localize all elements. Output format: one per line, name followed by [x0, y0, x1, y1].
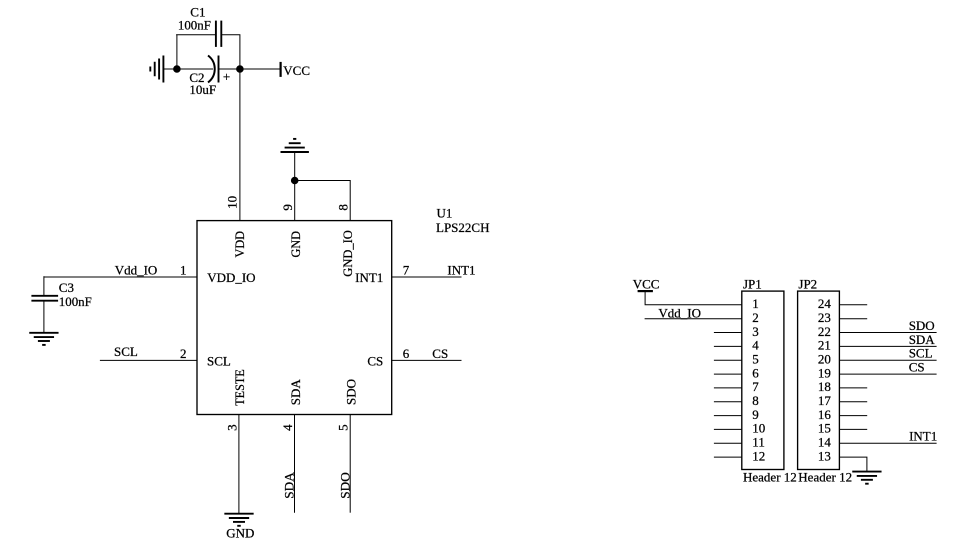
- wire (C2 to VCC): [219, 68, 281, 70]
- svg-text:12: 12: [752, 448, 765, 463]
- svg-text:SCL: SCL: [909, 346, 933, 361]
- svg-text:LPS22CH: LPS22CH: [436, 220, 489, 235]
- svg-text:2: 2: [180, 346, 187, 361]
- power VCC (bar): [281, 62, 310, 78]
- JP2 pin 21 wire: [839, 345, 936, 347]
- pin 4 wire: [294, 415, 296, 513]
- svg-text:SCL: SCL: [114, 344, 138, 359]
- svg-text:SDA: SDA: [288, 379, 303, 406]
- JP1 pin 4 wire: [714, 345, 742, 347]
- IC U1 LPS22CH body: [197, 221, 392, 415]
- JP1 pin 9 wire: [714, 415, 742, 417]
- svg-text:SDA: SDA: [281, 472, 296, 499]
- svg-text:Vdd_IO: Vdd_IO: [115, 263, 158, 278]
- junction (pin 9 node): [291, 177, 298, 184]
- svg-text:5: 5: [752, 352, 759, 367]
- svg-text:9: 9: [280, 204, 295, 211]
- pin 3 wire: [238, 415, 240, 514]
- svg-text:15: 15: [818, 421, 831, 436]
- svg-text:INT1: INT1: [447, 263, 475, 278]
- svg-text:+: +: [223, 69, 230, 84]
- svg-text:Header 12: Header 12: [743, 470, 797, 485]
- pin 5 wire: [349, 415, 351, 513]
- JP1 pin 5 wire: [714, 359, 742, 361]
- svg-text:23: 23: [818, 310, 831, 325]
- power VCC (header side): [633, 276, 660, 291]
- svg-text:13: 13: [818, 448, 831, 463]
- svg-text:INT1: INT1: [355, 270, 383, 285]
- wire (ground to C2): [163, 68, 213, 70]
- wire (to pin 8): [295, 181, 351, 221]
- svg-text:8: 8: [752, 393, 759, 408]
- svg-text:SDO: SDO: [338, 472, 353, 499]
- svg-text:10: 10: [752, 421, 765, 436]
- wire (C1 right plate to junction 2): [221, 35, 240, 69]
- svg-text:Vdd_IO: Vdd_IO: [658, 305, 701, 320]
- svg-text:7: 7: [403, 263, 410, 278]
- svg-text:3: 3: [752, 324, 759, 339]
- connector JP2 body: [798, 291, 840, 469]
- svg-text:9: 9: [752, 407, 759, 422]
- svg-text:VCC: VCC: [283, 63, 310, 78]
- JP1 pin 3 wire: [714, 332, 742, 334]
- svg-text:14: 14: [818, 435, 832, 450]
- svg-text:3: 3: [224, 424, 239, 431]
- svg-text:16: 16: [818, 407, 832, 422]
- svg-text:C3: C3: [59, 280, 74, 295]
- svg-text:7: 7: [752, 379, 759, 394]
- svg-text:VCC: VCC: [633, 276, 660, 291]
- svg-text:GND: GND: [226, 526, 254, 541]
- svg-text:2: 2: [752, 310, 759, 325]
- ground (JP2 pin 13): [852, 472, 881, 484]
- JP2 pin 23 wire: [839, 318, 867, 320]
- ground (above pin 9, flipped): [281, 139, 309, 181]
- wire (pin 1 down to C3): [43, 276, 45, 296]
- svg-text:JP2: JP2: [798, 276, 817, 291]
- svg-text:SDO: SDO: [909, 318, 935, 333]
- svg-text:10uF: 10uF: [189, 82, 216, 97]
- wire (VCC to JP1 pin 1): [645, 291, 742, 305]
- svg-text:CS: CS: [432, 346, 448, 361]
- svg-text:22: 22: [818, 324, 831, 339]
- svg-text:6: 6: [752, 365, 759, 380]
- svg-text:21: 21: [818, 338, 831, 353]
- JP2 pin 13 wire: [839, 457, 867, 472]
- svg-text:INT1: INT1: [909, 429, 937, 444]
- wire (VCC node down to pin 10): [239, 69, 241, 221]
- capacitor C3 100nF: [31, 280, 91, 309]
- JP1 pin 6 wire: [714, 373, 742, 375]
- svg-text:4: 4: [280, 424, 295, 431]
- svg-text:20: 20: [818, 352, 831, 367]
- wire (pin 9): [294, 181, 296, 221]
- connector JP1 body: [742, 291, 784, 469]
- svg-text:6: 6: [403, 346, 410, 361]
- JP1 pin 10 wire: [714, 428, 742, 430]
- JP2 pin 16 wire: [839, 415, 867, 417]
- svg-text:18: 18: [818, 379, 831, 394]
- JP1 pin 12 wire: [714, 456, 742, 458]
- svg-text:1: 1: [180, 263, 187, 278]
- svg-text:1: 1: [752, 296, 759, 311]
- svg-text:19: 19: [818, 365, 831, 380]
- pin 7 wire: [392, 276, 462, 278]
- wire (C3 to ground): [43, 301, 45, 333]
- JP1 pin 8 wire: [714, 401, 742, 403]
- svg-text:10: 10: [225, 196, 240, 209]
- svg-text:VDD: VDD: [232, 231, 247, 258]
- svg-text:SDO: SDO: [343, 379, 358, 405]
- ground (decoupling, left of C2): [150, 56, 163, 83]
- svg-text:SDA: SDA: [909, 332, 936, 347]
- svg-text:TESTE: TESTE: [232, 369, 247, 406]
- wire (junction up to C1): [176, 35, 178, 70]
- svg-text:17: 17: [818, 393, 832, 408]
- pin 2 wire: [100, 359, 197, 361]
- capacitor C1 100nF: [178, 5, 221, 47]
- pin 1 wire: [44, 276, 197, 278]
- JP1 pin 7 wire: [714, 387, 742, 389]
- svg-text:SCL: SCL: [207, 353, 231, 368]
- junction (VCC node): [237, 66, 244, 73]
- svg-text:24: 24: [818, 296, 832, 311]
- svg-text:U1: U1: [437, 206, 453, 221]
- svg-text:100nF: 100nF: [178, 17, 211, 32]
- wire (to C1 left plate): [176, 34, 216, 36]
- wire (Vdd_IO to JP1 pin 2): [645, 318, 742, 320]
- pin 6 wire: [392, 359, 462, 361]
- ground (C3): [29, 333, 58, 345]
- svg-text:VDD_IO: VDD_IO: [207, 270, 255, 285]
- svg-text:GND_IO: GND_IO: [340, 230, 355, 277]
- svg-text:4: 4: [752, 338, 759, 353]
- JP2 pin 14 wire: [839, 442, 936, 444]
- JP2 pin 24 wire: [839, 304, 867, 306]
- JP1 pin 11 wire: [714, 442, 742, 444]
- svg-text:11: 11: [752, 435, 765, 450]
- svg-text:GND: GND: [288, 231, 303, 258]
- JP2 pin 22 wire: [839, 332, 936, 334]
- JP2 pin 17 wire: [839, 401, 867, 403]
- capacitor C2 10uF (polarized): [189, 56, 230, 98]
- JP2 pin 19 wire: [839, 373, 936, 375]
- svg-text:Header 12: Header 12: [798, 470, 852, 485]
- JP2 pin 15 wire: [839, 428, 867, 430]
- svg-text:CS: CS: [909, 360, 925, 375]
- JP2 pin 18 wire: [839, 387, 867, 389]
- JP2 pin 20 wire: [839, 359, 936, 361]
- svg-text:8: 8: [336, 204, 351, 211]
- ground GND (pin 3): [224, 514, 253, 526]
- svg-text:JP1: JP1: [743, 276, 762, 291]
- junction (C1/C2 left): [174, 66, 181, 73]
- svg-text:100nF: 100nF: [59, 294, 92, 309]
- svg-text:5: 5: [336, 424, 351, 431]
- svg-text:CS: CS: [367, 353, 383, 368]
